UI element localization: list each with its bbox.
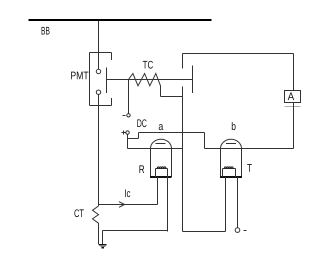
- svg-text:T: T: [247, 163, 252, 175]
- svg-text:R: R: [139, 164, 145, 176]
- svg-text:PMT: PMT: [70, 70, 89, 82]
- svg-text:Ic: Ic: [124, 188, 131, 200]
- svg-text:BB: BB: [41, 25, 50, 37]
- svg-text:TC: TC: [143, 59, 154, 71]
- svg-text:a: a: [158, 121, 164, 133]
- svg-text:A: A: [288, 91, 295, 103]
- svg-text:CT: CT: [74, 208, 84, 220]
- svg-text:b: b: [231, 121, 236, 133]
- svg-text:DC: DC: [137, 118, 147, 130]
